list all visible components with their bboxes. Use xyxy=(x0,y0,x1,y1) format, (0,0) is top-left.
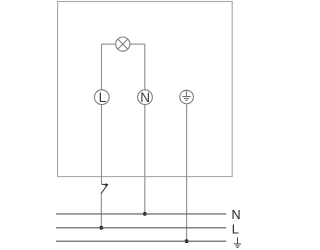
svg-text:L: L xyxy=(99,90,107,105)
device enclosure box xyxy=(58,2,233,177)
svg-text:L: L xyxy=(232,222,239,236)
lamp E1 xyxy=(116,37,130,51)
wire PE terminal down to PE bus xyxy=(186,104,188,241)
junction dot on N bus xyxy=(143,212,147,216)
switch S1 (single-pole) xyxy=(101,183,109,194)
junction dot on L bus xyxy=(99,226,103,230)
wire lamp left horizontal xyxy=(102,43,116,45)
junction dot on PE bus xyxy=(185,239,189,243)
wire L terminal down to switch xyxy=(101,105,103,184)
terminal PE (earth) xyxy=(180,90,194,104)
PE bus line xyxy=(56,240,226,242)
wire switch down to L bus xyxy=(100,194,102,228)
L bus line xyxy=(56,227,226,229)
svg-text:N: N xyxy=(232,208,241,222)
earth symbol label xyxy=(234,237,241,247)
wire N terminal down to N bus xyxy=(144,105,146,214)
wire lamp to terminal L vertical xyxy=(101,44,103,90)
terminal N xyxy=(138,90,153,105)
svg-text:N: N xyxy=(140,90,150,105)
N bus line xyxy=(56,213,226,215)
terminal L xyxy=(94,90,109,105)
wire lamp to terminal N vertical xyxy=(144,44,146,90)
wire lamp right horizontal xyxy=(130,43,145,45)
